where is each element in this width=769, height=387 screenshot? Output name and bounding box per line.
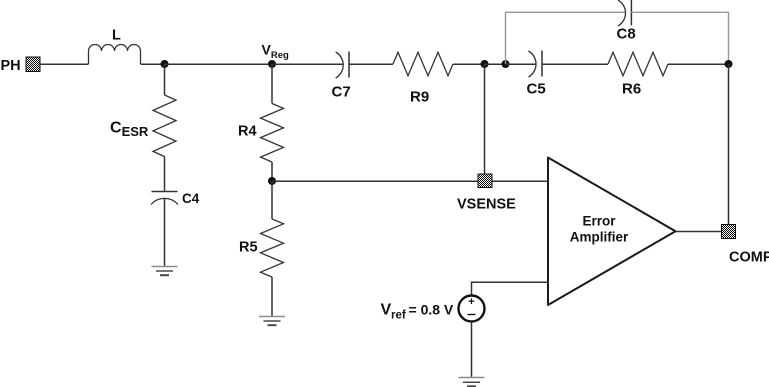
capacitor C4	[151, 192, 178, 205]
node divider R4/R5	[268, 177, 276, 185]
wire R6 to right node	[668, 63, 729, 65]
svg-text:VReg: VReg	[262, 42, 289, 62]
ground below C4	[152, 267, 178, 276]
wire C8 feedback rail left	[506, 12, 626, 64]
node VReg	[268, 60, 276, 68]
node junction L/C_ESR	[161, 60, 169, 68]
svg-text:ref: ref	[391, 310, 406, 322]
voltage source Vref	[459, 296, 485, 322]
svg-text:R6: R6	[622, 81, 641, 98]
wire R9 to node A	[453, 63, 485, 65]
wire C7 to R9	[349, 63, 393, 65]
wire node1 down to C_ESR	[164, 64, 166, 95]
op-amp U1 Error Amplifier	[548, 158, 676, 306]
svg-text:C4: C4	[182, 191, 200, 206]
capacitor C7	[336, 52, 349, 79]
wire right node down to COMP	[728, 64, 730, 225]
node COMP branch	[725, 60, 733, 68]
svg-text:= 0.8 V: = 0.8 V	[409, 302, 454, 318]
wire C4 to ground	[164, 198, 166, 266]
resistor R5	[261, 219, 284, 277]
wire C_ESR to C4	[164, 157, 166, 192]
svg-text:VSENSE: VSENSE	[457, 197, 516, 213]
terminal VSENSE	[478, 174, 492, 188]
wire Vref to amplifier input	[472, 282, 549, 295]
wire node1 to VReg node	[165, 63, 273, 65]
svg-text:C5: C5	[527, 81, 546, 98]
svg-text:C7: C7	[332, 84, 351, 101]
terminal COMP	[722, 225, 736, 239]
svg-text:PH: PH	[1, 58, 21, 74]
wire PH to L	[40, 63, 89, 65]
wire L to node1	[141, 63, 165, 65]
svg-text:V: V	[381, 302, 392, 319]
inductor L	[89, 45, 141, 64]
wire VReg to C7	[272, 63, 343, 65]
wire C8 feedback rail right	[631, 12, 728, 64]
resistor R4	[261, 104, 284, 163]
wire C5 to R6	[542, 63, 608, 65]
wire Vref to ground	[471, 322, 473, 378]
svg-text:Amplifier: Amplifier	[570, 230, 629, 245]
terminal PH	[26, 57, 40, 72]
svg-text:R9: R9	[410, 89, 429, 106]
svg-text:L: L	[112, 28, 121, 44]
wire node A to node B	[485, 63, 506, 65]
wire amplifier output to COMP	[676, 230, 722, 232]
node B (C8 branch)	[502, 60, 510, 68]
wire node A down to VSENSE	[484, 64, 486, 174]
capacitor C8	[618, 0, 631, 26]
svg-text:R4: R4	[238, 124, 257, 140]
wire VReg node down to R4	[271, 64, 273, 104]
svg-text:C8: C8	[617, 26, 636, 43]
resistor R6	[608, 52, 668, 75]
ground below R5	[259, 317, 285, 326]
wire R4 to divider node	[271, 162, 273, 181]
wire R5 to ground	[271, 277, 273, 317]
svg-text:CESR: CESR	[110, 120, 149, 140]
svg-text:COMP: COMP	[729, 250, 769, 266]
svg-text:Error: Error	[582, 214, 616, 229]
capacitor C5	[529, 51, 543, 78]
ground below Vref	[459, 378, 485, 387]
node A (VSENSE branch)	[481, 60, 489, 68]
wire node B to C5	[506, 63, 537, 65]
svg-text:R5: R5	[239, 240, 258, 256]
svg-text:+: +	[468, 296, 474, 308]
label Error Amplifier	[570, 214, 629, 245]
resistor C_ESR	[153, 95, 176, 157]
wire divider node to amplifier input	[272, 180, 548, 182]
label Vref = 0.8 V	[381, 302, 454, 322]
wire divider node to R5	[271, 181, 273, 219]
resistor R9	[393, 52, 453, 75]
